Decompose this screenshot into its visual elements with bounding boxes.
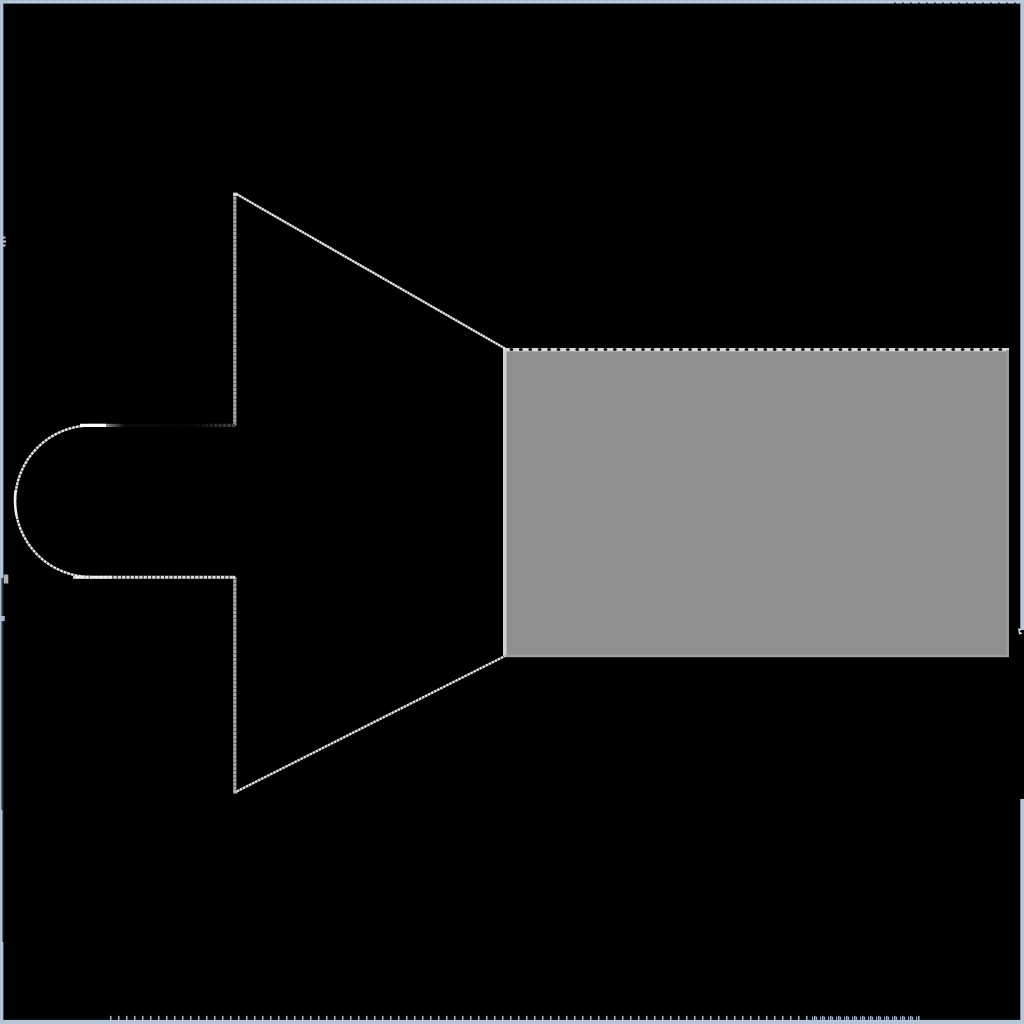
right strip lower light band — [1020, 799, 1024, 1024]
bottom strip light tick marks rising — [110, 1016, 922, 1021]
right frame strip upper light band — [1020, 0, 1024, 630]
body rect top edge dashed line — [504, 348, 1009, 351]
handle round cap arc — [15, 425, 91, 577]
handle arc bright left-middle segment — [15, 490, 17, 516]
cone upper diagonal — [236, 194, 505, 349]
cone apex bottom bright corner — [233, 790, 237, 794]
cone lower diagonal — [236, 656, 505, 792]
handle round cap arc bead notches — [15, 425, 91, 577]
body rect right edge — [1006, 350, 1009, 657]
handle bottom line fine dashes — [78, 576, 233, 579]
small white mark lower-left — [4, 575, 9, 584]
cone vertical line bead joints lower — [233, 579, 236, 792]
left edge ruler nubs — [3, 237, 7, 247]
handle arc to bottom-line bright joint — [76, 576, 112, 579]
bottom frame strip — [0, 1020, 1024, 1024]
right strip middle dark band — [1020, 630, 1024, 799]
cone mouth vertical line lower segment — [233, 577, 236, 793]
left strip small marker mid — [1, 616, 5, 621]
left strip lower thin part overlay — [2, 810, 3, 942]
top frame strip — [0, 0, 1024, 4]
handle bottom line dashed — [73, 576, 235, 579]
cone lower diagonal notches — [236, 656, 505, 792]
bottom strip denser tick cluster — [812, 1017, 920, 1021]
handle top line right-end dash breaks — [160, 424, 235, 427]
top strip in-strip tick marks — [6, 1, 1024, 3]
body rect bottom edge — [504, 655, 1009, 657]
handle arc to top-line bright joint — [80, 424, 106, 427]
cone mouth vertical line upper segment — [233, 194, 236, 426]
cone upper diagonal notches — [236, 194, 505, 349]
body rect left edge highlight — [503, 348, 507, 657]
left frame strip — [0, 0, 3, 1024]
handle top line (fading) — [89, 424, 235, 427]
top strip black nub ticks — [10, 4, 1018, 6]
top strip right section longer ticks — [894, 3, 1016, 7]
left strip mid thin part overlay — [1, 578, 3, 810]
right strip small arrow mark — [1018, 628, 1023, 635]
cone apex top bright corner — [233, 193, 237, 196]
cone vertical line bead joints upper — [233, 196, 236, 425]
speaker body rectangle (gray fill) — [504, 348, 1009, 657]
body rect top edge dots — [511, 348, 1009, 351]
